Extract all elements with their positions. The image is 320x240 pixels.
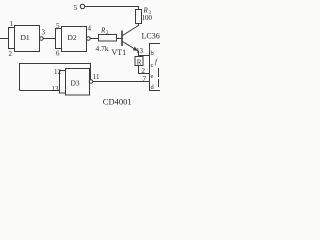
svg-text:e: e xyxy=(151,73,154,80)
svg-text:D2: D2 xyxy=(68,33,77,42)
bubble D1 output pin 3 xyxy=(40,37,44,41)
wire pin 11 to chip pin 7 xyxy=(93,81,150,83)
segment bar 2 xyxy=(158,79,160,87)
wire R2 to VT1 base xyxy=(117,38,123,40)
svg-text:D3: D3 xyxy=(71,79,80,88)
svg-text:b: b xyxy=(151,50,154,57)
bubble D2 output pin 4 xyxy=(87,37,91,41)
feedback wire top xyxy=(20,64,91,91)
svg-text:11: 11 xyxy=(93,73,100,81)
gate D1 xyxy=(9,26,40,52)
svg-text:VT1: VT1 xyxy=(112,48,127,57)
svg-text:13: 13 xyxy=(52,85,60,93)
resistor R2 xyxy=(99,35,117,42)
pin 13 wire to chip xyxy=(139,55,150,57)
svg-text:7: 7 xyxy=(143,75,147,83)
svg-text:R: R xyxy=(137,58,142,66)
svg-text:13: 13 xyxy=(136,47,144,55)
wire D1 to D2 xyxy=(43,38,55,40)
gate D2 xyxy=(56,27,87,52)
svg-text:LC36: LC36 xyxy=(142,32,160,41)
svg-text:6: 6 xyxy=(56,50,60,58)
svg-text:100: 100 xyxy=(142,14,153,22)
svg-text:CD4001: CD4001 xyxy=(103,96,132,106)
resistor R3 xyxy=(136,10,142,24)
wire input to D1 xyxy=(0,38,9,40)
transistor VT1 xyxy=(122,26,139,52)
svg-text:5: 5 xyxy=(56,22,60,30)
gate D3 xyxy=(60,69,90,96)
segment bar 1 xyxy=(158,68,160,77)
bubble D3 output pin 11 xyxy=(89,80,93,84)
top wire xyxy=(85,7,139,10)
svg-text:2: 2 xyxy=(9,50,13,58)
svg-text:c: c xyxy=(151,62,154,69)
resistor R boxed xyxy=(135,57,143,66)
display chip LC36 xyxy=(150,44,163,91)
svg-text:D1: D1 xyxy=(21,33,30,42)
wire D2 to R2 xyxy=(90,38,98,40)
svg-text:2: 2 xyxy=(142,67,146,75)
svg-text:4: 4 xyxy=(88,25,92,33)
feedback wire bottom xyxy=(20,90,60,92)
wire R3 to collector xyxy=(138,24,140,27)
svg-text:3: 3 xyxy=(42,29,46,37)
svg-text:4.7k: 4.7k xyxy=(96,44,109,53)
svg-text:1: 1 xyxy=(10,20,14,28)
wire emitter down xyxy=(138,51,140,57)
svg-text:5: 5 xyxy=(74,3,78,12)
wire R to pin 2 xyxy=(139,66,150,74)
svg-text:12: 12 xyxy=(54,68,62,76)
